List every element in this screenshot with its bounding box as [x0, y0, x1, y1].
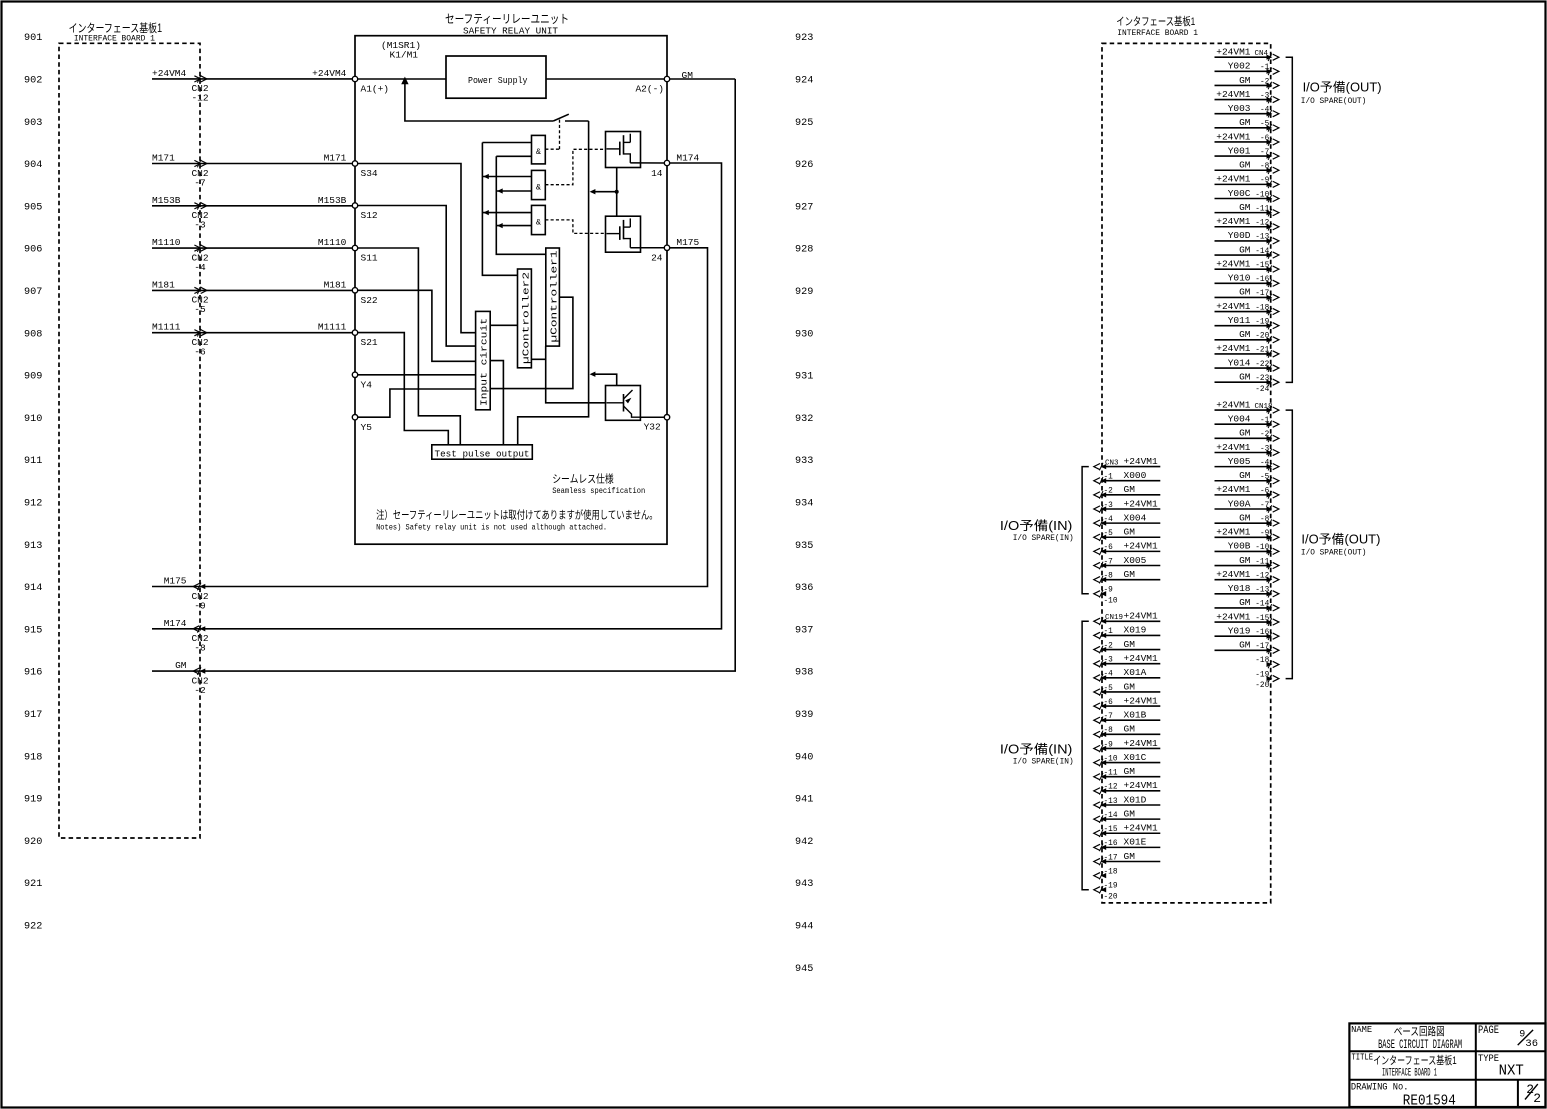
transistor Q1 (output 14)	[606, 132, 641, 168]
svg-text:I/O予備(OUT): I/O予備(OUT)	[1301, 532, 1380, 547]
svg-text:941: 941	[795, 795, 813, 806]
svg-text:GM: GM	[1239, 287, 1251, 298]
pin Y5	[352, 415, 357, 420]
wire uController2 to transistor Q3	[531, 359, 605, 403]
wire input circuit branch to test pulse output	[490, 361, 503, 445]
svg-text:INTERFACE BOARD 1: INTERFACE BOARD 1	[1382, 1067, 1437, 1079]
svg-text:A2(-): A2(-)	[635, 84, 664, 95]
connector CN4 pin -18 wire +24VM1	[1215, 311, 1271, 313]
connector CN4 pin -7 wire Y001	[1215, 155, 1271, 157]
svg-text:M171: M171	[152, 153, 175, 164]
svg-text:943: 943	[795, 879, 813, 890]
svg-text:GM: GM	[1239, 117, 1251, 128]
svg-text:GM: GM	[1124, 808, 1136, 819]
svg-text:S34: S34	[361, 168, 378, 179]
line number column 923-945	[795, 33, 813, 975]
connector CN18 pin -4 wire Y005	[1215, 466, 1271, 468]
svg-text:36: 36	[1525, 1038, 1538, 1050]
svg-text:927: 927	[795, 202, 813, 213]
svg-text:933: 933	[795, 456, 813, 467]
power supply block	[446, 56, 546, 98]
connector CN3 pin -6 wire +24VM1	[1102, 550, 1160, 552]
connector CN19 pin -14 wire GM	[1102, 818, 1160, 820]
wire Y5 route to input circuit	[358, 389, 476, 417]
connector CN4 pin -14 wire GM	[1215, 254, 1271, 256]
svg-text:+24VM1: +24VM1	[1216, 442, 1251, 453]
wire gate U3 input a	[482, 176, 531, 178]
connector CN19 pin -7 wire X01B	[1102, 719, 1160, 721]
connector CN19 pin -13 wire X01D	[1102, 804, 1160, 806]
svg-text:930: 930	[795, 329, 813, 340]
connector CN18 pin -16 wire Y019	[1215, 635, 1271, 637]
pin S22	[352, 288, 357, 293]
connector CN3 pin -2 wire GM	[1102, 494, 1160, 496]
svg-text:GM: GM	[1239, 555, 1251, 566]
svg-text:+24VM4: +24VM4	[312, 68, 347, 79]
wire pin Y32 from Q3	[640, 416, 664, 418]
wire Q1 drain to pin 14	[630, 162, 664, 164]
svg-text:M1111: M1111	[318, 322, 347, 333]
dashed control: gate U4 output to transistor Q2	[545, 220, 605, 234]
svg-text:Input circuit: Input circuit	[479, 318, 490, 406]
svg-text:-3: -3	[194, 220, 206, 231]
svg-text:TYPE: TYPE	[1478, 1054, 1499, 1065]
connector CN2 pin -5 crossing	[197, 287, 201, 295]
svg-text:I/O予備(IN): I/O予備(IN)	[1000, 742, 1073, 757]
svg-text:-24: -24	[1255, 386, 1269, 394]
test pulse output block	[432, 445, 533, 459]
wire S12 route to input circuit	[358, 206, 476, 347]
AND gate U4	[532, 205, 546, 234]
svg-text:M175: M175	[164, 576, 187, 587]
svg-text:Seamless specification: Seamless specification	[552, 486, 645, 496]
svg-text:+24VM1: +24VM1	[1216, 131, 1251, 142]
transistor Q2 (output 24)	[606, 216, 641, 252]
svg-text:936: 936	[795, 583, 813, 594]
svg-text:I/O予備(IN): I/O予備(IN)	[1000, 518, 1073, 533]
svg-text:Y005: Y005	[1228, 456, 1251, 467]
svg-text:S11: S11	[361, 253, 378, 264]
wire junction to main rail (arrow)	[592, 191, 617, 193]
microcontroller U6 (uController1)	[546, 248, 560, 346]
svg-text:+24VM1: +24VM1	[1124, 498, 1159, 509]
svg-text:917: 917	[24, 710, 42, 721]
svg-text:907: 907	[24, 287, 42, 298]
wire M175 route (pin 24 to CN2-9)	[152, 248, 708, 587]
dashed control: gate U3 output to transistor Q1	[545, 149, 605, 184]
svg-text:-4: -4	[194, 262, 206, 273]
svg-text:906: 906	[24, 245, 42, 256]
svg-text:I/O予備(OUT): I/O予備(OUT)	[1303, 80, 1382, 95]
pin Y32	[664, 415, 669, 420]
svg-text:I/O SPARE(IN): I/O SPARE(IN)	[1013, 756, 1074, 766]
svg-text:902: 902	[24, 76, 42, 87]
svg-text:916: 916	[24, 668, 42, 679]
wire gate U3 input b	[496, 190, 531, 192]
connector CN4 pin -19 wire Y011	[1215, 325, 1271, 327]
connector CN4 pin -4 wire Y003	[1215, 113, 1271, 115]
svg-text:X004: X004	[1124, 512, 1147, 523]
svg-text:935: 935	[795, 541, 813, 552]
svg-text:+24VM4: +24VM4	[152, 68, 187, 79]
wire input circuit to uController2	[490, 324, 517, 326]
wire uController1 bottom stub	[545, 346, 547, 359]
pin Y4	[352, 372, 357, 377]
transistor Q3 (output Y32)	[606, 386, 641, 421]
connector CN18 pin -9 wire +24VM1	[1215, 536, 1271, 538]
connector CN4 pin -10 wire Y00C	[1215, 198, 1271, 200]
microcontroller U5 (uController2)	[518, 269, 532, 368]
svg-text:GM: GM	[1124, 851, 1136, 862]
svg-text:Y003: Y003	[1228, 103, 1251, 114]
svg-text:セーフティーリレーユニット: セーフティーリレーユニット	[445, 12, 569, 26]
svg-text:+24VM1: +24VM1	[1216, 216, 1251, 227]
svg-text:&: &	[536, 183, 541, 193]
svg-text:+24VM1: +24VM1	[1124, 695, 1159, 706]
connector CN3 pin -1 wire X000	[1102, 480, 1160, 482]
svg-text:+24VM1: +24VM1	[1124, 541, 1159, 552]
svg-text:+24VM1: +24VM1	[1216, 527, 1251, 538]
svg-text:GM: GM	[1239, 470, 1251, 481]
svg-text:+24VM1: +24VM1	[1216, 89, 1251, 100]
svg-text:Y00A: Y00A	[1228, 498, 1251, 509]
svg-text:X019: X019	[1124, 625, 1147, 636]
svg-text:GM: GM	[1124, 766, 1136, 777]
svg-text:922: 922	[24, 922, 42, 933]
svg-text:+24VM1: +24VM1	[1216, 174, 1251, 185]
svg-text:GM: GM	[1124, 527, 1136, 538]
wire GM route (A2 to CN2-2)	[152, 79, 735, 671]
svg-text:-20: -20	[1104, 893, 1118, 901]
connector CN18 pin -15 wire +24VM1	[1215, 621, 1271, 623]
svg-text:Y001: Y001	[1228, 145, 1251, 156]
connector CN4 pin -3 wire +24VM1	[1215, 99, 1271, 101]
connector CN4 pin -5 wire GM	[1215, 127, 1271, 129]
bracket CN3 spare in	[1082, 467, 1089, 594]
svg-text:937: 937	[795, 625, 813, 636]
connector CN3 pin -4 wire X004	[1102, 522, 1160, 524]
connector CN2 pin -2 crossing	[197, 667, 201, 675]
main vertical rail	[518, 121, 589, 445]
switch blade K1	[553, 114, 569, 121]
pin 14 / M174	[664, 160, 669, 165]
svg-text:+24VM1: +24VM1	[1124, 823, 1159, 834]
svg-text:924: 924	[795, 76, 813, 87]
connector CN18 pin -5 wire GM	[1215, 480, 1271, 482]
svg-text:+24VM1: +24VM1	[1216, 47, 1251, 58]
svg-text:シームレス仕様: シームレス仕様	[552, 471, 614, 485]
svg-text:911: 911	[24, 456, 42, 467]
connector CN4 pin -22 wire Y014	[1215, 367, 1271, 369]
svg-text:X01A: X01A	[1124, 667, 1147, 678]
wire Q1-Q2 common with junction	[616, 168, 618, 217]
connector CN4 pin -15 wire +24VM1	[1215, 268, 1271, 270]
svg-text:-8: -8	[194, 643, 206, 654]
svg-text:915: 915	[24, 625, 42, 636]
svg-text:RE01594: RE01594	[1403, 1092, 1456, 1109]
svg-text:PAGE: PAGE	[1478, 1025, 1499, 1037]
connector CN18 pin -17 wire GM	[1215, 649, 1271, 651]
connector CN4 pin -6 wire +24VM1	[1215, 141, 1271, 143]
connector CN18 pin -11 wire GM	[1215, 565, 1271, 567]
svg-text:920: 920	[24, 837, 42, 848]
svg-text:+24VM1: +24VM1	[1216, 484, 1251, 495]
svg-text:GM: GM	[1239, 371, 1251, 382]
svg-text:14: 14	[651, 168, 663, 179]
svg-text:+24VM1: +24VM1	[1216, 399, 1251, 410]
svg-text:929: 929	[795, 287, 813, 298]
svg-text:910: 910	[24, 414, 42, 425]
svg-text:GM: GM	[1124, 484, 1136, 495]
wire M181 from CN2-5 to safety relay unit	[152, 289, 355, 291]
svg-text:909: 909	[24, 372, 42, 383]
connector CN4 pin -11 wire GM	[1215, 212, 1271, 214]
svg-text:908: 908	[24, 329, 42, 340]
svg-text:M174: M174	[164, 618, 187, 629]
connector CN19 pin -4 wire X01A	[1102, 677, 1160, 679]
svg-text:M153B: M153B	[152, 195, 181, 206]
wire A1 branch down to switch	[405, 79, 553, 121]
wire S11 route to test pulse output	[358, 248, 461, 445]
connector CN19 pin -3 wire +24VM1	[1102, 663, 1160, 665]
bracket CN19 spare in	[1082, 621, 1089, 890]
wire M1110 from CN2-4 to safety relay unit	[152, 247, 355, 249]
connector CN19 pin -12 wire +24VM1	[1102, 790, 1160, 792]
svg-text:S12: S12	[361, 210, 378, 221]
svg-text:+24VM1: +24VM1	[1216, 258, 1251, 269]
connector CN18 pin -13 wire Y018	[1215, 593, 1271, 595]
pin A2(-)	[664, 76, 669, 81]
svg-text:925: 925	[795, 118, 813, 129]
svg-text:µController2: µController2	[520, 272, 531, 364]
svg-text:+24VM1: +24VM1	[1124, 611, 1159, 622]
svg-text:-7: -7	[194, 177, 205, 188]
interface board 1 (right) dashed enclosure	[1102, 43, 1271, 903]
connector CN18 pin -1 wire Y004	[1215, 423, 1271, 425]
svg-text:932: 932	[795, 414, 813, 425]
connector CN18 pin (top) wire +24VM1	[1215, 409, 1271, 411]
wire gate U2 input b	[496, 155, 531, 157]
svg-text:-5: -5	[194, 304, 206, 315]
svg-text:+24VM1: +24VM1	[1124, 738, 1159, 749]
svg-text:X01D: X01D	[1124, 794, 1147, 805]
svg-text:2: 2	[1533, 1091, 1541, 1106]
svg-text:SAFETY RELAY UNIT: SAFETY RELAY UNIT	[463, 25, 558, 36]
wire power supply to A2	[546, 78, 664, 80]
svg-text:BASE CIRCUIT DIAGRAM: BASE CIRCUIT DIAGRAM	[1378, 1037, 1462, 1052]
svg-text:M181: M181	[324, 279, 347, 290]
connector CN4 pin -1 wire Y002	[1215, 70, 1271, 72]
connector CN18 pin -12 wire +24VM1	[1215, 579, 1271, 581]
connector CN19 pin -15 wire +24VM1	[1102, 832, 1160, 834]
svg-text:インタフェース基板1: インタフェース基板1	[1116, 14, 1195, 28]
wire gate U4 input a	[482, 212, 531, 214]
wire S21 route to test pulse output	[358, 333, 449, 445]
wire gate U4 input b	[496, 225, 531, 227]
connector CN19 pin -5 wire GM	[1102, 691, 1160, 693]
svg-text:-6: -6	[194, 347, 206, 358]
pin S34	[352, 161, 357, 166]
safety relay unit U1 enclosure	[355, 36, 667, 545]
svg-text:Y014: Y014	[1228, 357, 1251, 368]
svg-text:912: 912	[24, 499, 42, 510]
connector CN4 pin -16 wire Y010	[1215, 282, 1271, 284]
svg-text:GM: GM	[1124, 569, 1136, 580]
svg-text:945: 945	[795, 964, 813, 975]
wire M171 from CN2-7 to safety relay unit	[152, 163, 355, 165]
connector CN4 pin -23 wire GM	[1215, 381, 1271, 383]
svg-text:-12: -12	[191, 93, 208, 104]
svg-text:M181: M181	[152, 279, 175, 290]
connector CN19 pin -6 wire +24VM1	[1102, 705, 1160, 707]
connector CN4 pin -12 wire +24VM1	[1215, 226, 1271, 228]
svg-text:940: 940	[795, 752, 813, 763]
pin S12	[352, 203, 357, 208]
connector CN3 pin -3 wire +24VM1	[1102, 508, 1160, 510]
connector CN2 pin -4 crossing	[197, 244, 201, 252]
svg-text:CN4: CN4	[1255, 50, 1269, 58]
svg-text:Y32: Y32	[644, 422, 661, 433]
connector CN3 pin -8 wire GM	[1102, 579, 1160, 581]
connector CN18 pin -14 wire GM	[1215, 607, 1271, 609]
svg-text:913: 913	[24, 541, 42, 552]
svg-text:24: 24	[651, 253, 663, 264]
title block frame	[1349, 1023, 1545, 1107]
input circuit block	[476, 311, 491, 409]
connector CN2 pin -8 crossing	[197, 625, 201, 633]
svg-text:S21: S21	[361, 337, 378, 348]
svg-text:GM: GM	[1239, 202, 1251, 213]
wire input circuit to uController1	[490, 297, 573, 388]
connector CN18 pin -8 wire GM	[1215, 522, 1271, 524]
interface board 1 (left) dashed enclosure	[59, 43, 200, 838]
svg-text:Y004: Y004	[1228, 414, 1251, 425]
line number column 901-922	[24, 33, 42, 932]
wire M1111 from CN2-6 to safety relay unit	[152, 332, 355, 334]
wire Q2 drain to pin 24	[630, 247, 664, 249]
wire switch to main vertical rail	[565, 120, 589, 122]
connector CN4 pin -8 wire GM	[1215, 169, 1271, 171]
svg-text:+24VM1: +24VM1	[1216, 611, 1251, 622]
connector CN18 pin -7 wire Y00A	[1215, 508, 1271, 510]
svg-text:TITLE: TITLE	[1352, 1053, 1374, 1063]
svg-text:A1(+): A1(+)	[361, 84, 390, 95]
connector CN4 pin -9 wire +24VM1	[1215, 183, 1271, 185]
svg-text:DRAWING No.: DRAWING No.	[1351, 1083, 1409, 1094]
connector CN4 pin (top) wire +24VM1	[1215, 56, 1271, 58]
svg-text:Y018: Y018	[1228, 583, 1251, 594]
svg-text:Y4: Y4	[361, 379, 373, 390]
svg-text:934: 934	[795, 499, 813, 510]
connector CN19 pin -16 wire X01E	[1102, 846, 1160, 848]
svg-text:GM: GM	[1239, 512, 1251, 523]
connector CN4 pin -13 wire Y00D	[1215, 240, 1271, 242]
connector CN4 pin -2 wire GM	[1215, 84, 1271, 86]
wire S34 route to input circuit	[358, 164, 476, 333]
svg-text:-20: -20	[1255, 682, 1269, 690]
bracket CN4 spare out	[1286, 57, 1293, 382]
svg-text:&: &	[536, 147, 541, 157]
svg-text:Y00D: Y00D	[1228, 230, 1251, 241]
svg-text:928: 928	[795, 245, 813, 256]
AND gate U3	[532, 170, 546, 199]
svg-text:Y00C: Y00C	[1228, 188, 1251, 199]
svg-text:NXT: NXT	[1499, 1063, 1524, 1080]
wire Y4 to input circuit	[358, 374, 476, 376]
svg-text:-2: -2	[194, 685, 206, 696]
connector CN19 pin (top) wire +24VM1	[1102, 620, 1160, 622]
wire Q3 top to main rail (arrow)	[592, 374, 617, 385]
svg-text:921: 921	[24, 879, 42, 890]
svg-text:インターフェース基板1: インターフェース基板1	[1373, 1053, 1457, 1067]
svg-text:GM: GM	[1124, 681, 1136, 692]
svg-text:X01B: X01B	[1124, 710, 1147, 721]
svg-text:CN3: CN3	[1105, 459, 1119, 467]
svg-text:X01E: X01E	[1124, 837, 1147, 848]
connector CN19 pin -9 wire +24VM1	[1102, 747, 1160, 749]
svg-text:923: 923	[795, 33, 813, 44]
svg-text:901: 901	[24, 33, 42, 44]
svg-text:+24VM1: +24VM1	[1124, 780, 1159, 791]
wire S22 route to input circuit	[358, 290, 476, 361]
svg-text:INTERFACE BOARD 1: INTERFACE BOARD 1	[1117, 30, 1198, 38]
svg-text:M174: M174	[676, 152, 699, 163]
svg-text:Power Supply: Power Supply	[468, 76, 528, 86]
svg-text:Notes) Safety relay unit is no: Notes) Safety relay unit is not used alt…	[376, 522, 607, 532]
svg-text:903: 903	[24, 118, 42, 129]
junction A1 branch (up arrow tap)	[401, 77, 408, 85]
svg-text:+24VM1: +24VM1	[1216, 343, 1251, 354]
svg-text:GM: GM	[175, 660, 187, 671]
svg-text:X005: X005	[1124, 555, 1147, 566]
pin S21	[352, 330, 357, 335]
svg-text:918: 918	[24, 752, 42, 763]
svg-text:942: 942	[795, 837, 813, 848]
svg-text:GM: GM	[1239, 428, 1251, 439]
svg-text:Y00B: Y00B	[1228, 541, 1251, 552]
svg-text:M171: M171	[324, 153, 347, 164]
connector CN4 pin -17 wire GM	[1215, 296, 1271, 298]
svg-text:K1/M1: K1/M1	[390, 50, 419, 61]
svg-text:914: 914	[24, 583, 42, 594]
svg-text:Y011: Y011	[1228, 315, 1251, 326]
svg-text:I/O SPARE(IN): I/O SPARE(IN)	[1013, 533, 1074, 543]
connector CN19 pin -11 wire GM	[1102, 776, 1160, 778]
svg-text:GM: GM	[1239, 597, 1251, 608]
svg-text:INTERFACE BOARD 1: INTERFACE BOARD 1	[74, 34, 155, 43]
connector CN18 pin -6 wire +24VM1	[1215, 494, 1271, 496]
pin A1(+)	[352, 76, 357, 81]
svg-text:インターフェース基板1: インターフェース基板1	[69, 21, 163, 35]
connector CN3 pin (top) wire +24VM1	[1102, 466, 1160, 468]
svg-text:X000: X000	[1124, 470, 1147, 481]
svg-text:931: 931	[795, 372, 813, 383]
connector CN2 pin -3 crossing	[197, 202, 201, 210]
svg-text:M1111: M1111	[152, 322, 181, 333]
svg-text:NAME: NAME	[1351, 1025, 1372, 1035]
connector CN19 pin -2 wire GM	[1102, 649, 1160, 651]
svg-text:M153B: M153B	[318, 195, 347, 206]
connector CN2 pin -9 crossing	[197, 583, 201, 591]
svg-text:+24VM1: +24VM1	[1216, 301, 1251, 312]
svg-text:GM: GM	[1239, 75, 1251, 86]
bracket CN18 spare out	[1286, 410, 1293, 678]
wire A1 to power supply	[358, 78, 446, 80]
connector CN19 pin -8 wire GM	[1102, 733, 1160, 735]
svg-text:I/O SPARE(OUT): I/O SPARE(OUT)	[1301, 548, 1367, 558]
wire M174 route (pin 14 to CN2-8)	[152, 163, 722, 629]
connector CN4 pin -21 wire +24VM1	[1215, 353, 1271, 355]
